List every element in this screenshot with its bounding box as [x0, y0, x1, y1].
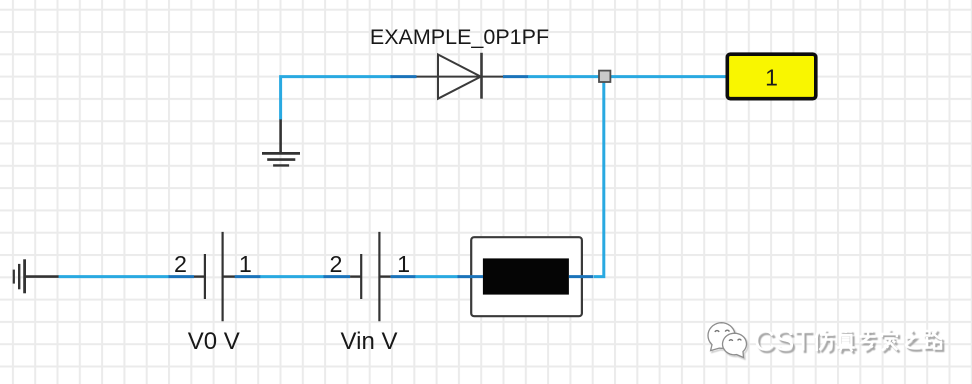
Vin short plate [360, 254, 362, 299]
V0 positive lead [223, 275, 235, 277]
svg-text:EXAMPLE_0P1PF: EXAMPLE_0P1PF [370, 25, 549, 49]
svg-text:Vin V: Vin V [341, 328, 398, 355]
voltage source Vin [324, 232, 416, 355]
V0 long plate [222, 232, 224, 321]
wire: diode cathode to external port 1 [528, 75, 727, 78]
watermark text fang-zhen-zhuan-jia-zhi-lu (hand-drawn glyphs, embossed) [816, 329, 945, 354]
Vin pin 1 stub [391, 275, 416, 278]
watermark logo (chat bubbles) [708, 323, 748, 360]
wire: Vin pin 1 to block left pin [415, 275, 458, 278]
wire: V0 pin 1 to Vin pin 2 [260, 275, 324, 278]
Vin positive lead [379, 275, 390, 277]
external port 1 [727, 54, 816, 98]
watermark text CST (embossed) [754, 326, 814, 360]
Vin negative lead [350, 275, 361, 277]
svg-text:1: 1 [239, 251, 252, 277]
wire: junction down to block right pin [594, 78, 604, 277]
junction node [599, 71, 610, 82]
V0 negative lead [194, 275, 205, 277]
wire: top-left corner run (ground riser to diode anode) [281, 77, 392, 120]
diode U1 pin 1 (anode stub) [391, 75, 417, 78]
ground (top, below wire corner) [262, 119, 300, 165]
svg-text:2: 2 [330, 251, 343, 277]
block inner black rectangle [483, 258, 569, 294]
block B1 (touchstone block) [458, 237, 594, 316]
voltage source V0 [169, 232, 261, 355]
svg-text:2: 2 [174, 251, 187, 277]
block right pin stub [569, 275, 593, 278]
Vin long plate [378, 232, 380, 321]
svg-text:1: 1 [397, 251, 410, 277]
diode U1 pin 2 (cathode stub) [503, 75, 529, 78]
svg-text:V0 V: V0 V [188, 328, 240, 355]
block outer body [471, 237, 582, 316]
ground (bottom-left, rotated) [14, 259, 59, 293]
V0 short plate [204, 254, 206, 299]
wire: ground to V0 pin 2 [59, 275, 170, 278]
block left pin stub [458, 275, 484, 278]
V0 pin 1 stub [235, 275, 261, 278]
V0 pin 2 stub [169, 275, 195, 278]
svg-text:CST: CST [754, 326, 812, 358]
Vin pin 2 stub [324, 275, 351, 278]
svg-text:1: 1 [765, 64, 778, 90]
diode U1 [416, 53, 503, 99]
